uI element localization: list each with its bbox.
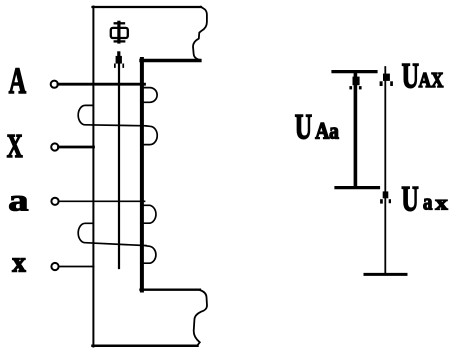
svg-text:Аа: Аа: [315, 118, 339, 144]
terminal X: [51, 143, 58, 150]
wire X: [59, 146, 94, 149]
winding turn W1 (right): [144, 88, 157, 103]
terminal A: [51, 81, 58, 88]
label F (flux) bowl: [111, 28, 128, 38]
core break line top: [193, 7, 207, 60]
svg-text:АХ: АХ: [419, 69, 444, 92]
winding turn W6 (right): [144, 246, 156, 263]
wire a: [59, 200, 145, 202]
wire x: [59, 266, 94, 268]
tick bottom: [365, 273, 406, 276]
phasor UAX line: [384, 67, 386, 274]
label F (flux) top serif: [115, 22, 124, 24]
arrowhead UAX: [380, 74, 393, 86]
phasor UAa line (thick): [354, 74, 358, 188]
flux arrow shaft: [118, 56, 120, 268]
label F (flux) stem: [117, 22, 120, 42]
core top edge: [93, 6, 202, 8]
svg-text:А: А: [9, 60, 27, 101]
svg-text:а: а: [423, 189, 433, 215]
winding turn W4 (right): [144, 205, 156, 223]
core yoke top edge (thick): [141, 59, 200, 62]
svg-text:U: U: [295, 107, 312, 147]
flux arrowhead: [114, 51, 124, 68]
terminal a: [51, 198, 58, 205]
label F (flux) bottom serif: [115, 40, 125, 42]
terminal x: [51, 263, 58, 270]
core break line bottom: [194, 290, 207, 345]
core left edge: [92, 7, 94, 347]
svg-text:х: х: [12, 247, 25, 279]
svg-text:U: U: [401, 179, 418, 219]
arrowhead Uax: [380, 191, 391, 203]
winding turn W5 (left): [78, 223, 146, 245]
svg-text:а: а: [8, 183, 28, 217]
arrowhead UAa: [349, 77, 361, 90]
tick top: [333, 70, 376, 73]
wire A: [58, 83, 145, 86]
winding turn W2 (left): [78, 105, 146, 125]
tick middle: [336, 186, 379, 189]
svg-text:U: U: [402, 56, 419, 96]
svg-text:Х: Х: [7, 127, 23, 165]
winding turn W3 (right): [144, 126, 157, 145]
core bottom edge: [93, 344, 198, 347]
core yoke bottom edge: [141, 289, 200, 291]
svg-text:х: х: [435, 191, 448, 215]
core limb right edge (thick): [140, 59, 144, 291]
